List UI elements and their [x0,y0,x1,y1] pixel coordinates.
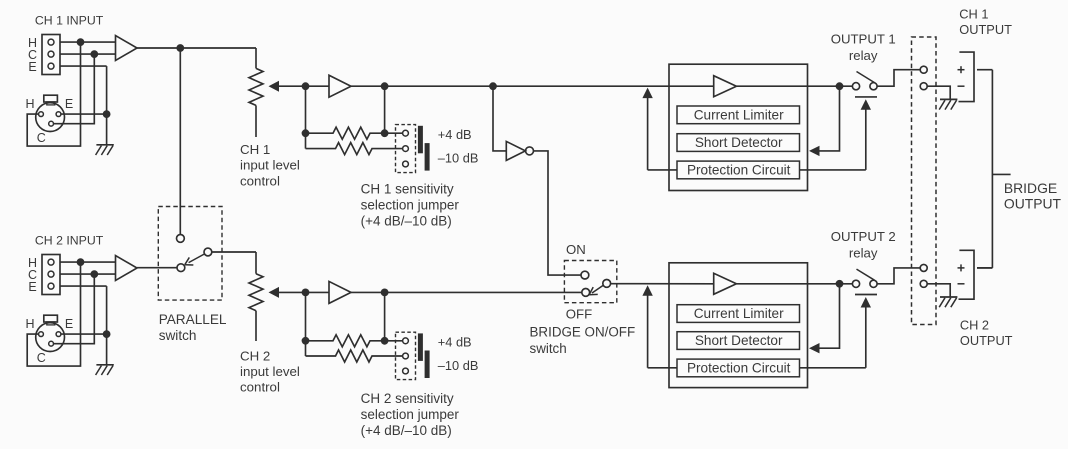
svg-text:CH 1 sensitivity: CH 1 sensitivity [361,181,454,196]
svg-text:CH 2: CH 2 [240,348,270,363]
svg-text:CH 2: CH 2 [960,317,989,332]
svg-text:relay: relay [849,48,878,63]
svg-text:Short Detector: Short Detector [695,333,783,348]
svg-text:selection jumper: selection jumper [361,197,460,212]
svg-text:switch: switch [530,341,567,356]
svg-text:CH 2 INPUT: CH 2 INPUT [35,234,104,248]
svg-text:–10 dB: –10 dB [438,358,479,373]
svg-text:OUTPUT: OUTPUT [959,22,1012,37]
svg-text:OFF: OFF [566,306,592,321]
svg-text:CH 1 INPUT: CH 1 INPUT [35,14,104,28]
svg-text:E: E [65,317,73,331]
svg-text:relay: relay [849,246,878,261]
svg-text:ON: ON [566,242,586,257]
svg-text:+4 dB: +4 dB [438,127,472,142]
svg-text:E: E [65,97,73,111]
svg-text:PARALLEL: PARALLEL [159,312,227,327]
svg-text:CH 1: CH 1 [240,142,270,157]
svg-text:C: C [37,351,46,365]
svg-text:(+4 dB/–10 dB): (+4 dB/–10 dB) [361,423,452,438]
svg-text:CH 2 sensitivity: CH 2 sensitivity [361,391,454,406]
svg-text:OUTPUT: OUTPUT [1004,195,1062,211]
svg-text:selection jumper: selection jumper [361,407,460,422]
svg-text:OUTPUT 1: OUTPUT 1 [831,31,896,46]
svg-text:E: E [28,60,36,74]
svg-text:H: H [25,97,34,111]
svg-text:OUTPUT: OUTPUT [960,333,1013,348]
svg-text:control: control [240,173,280,188]
svg-text:OUTPUT 2: OUTPUT 2 [831,229,896,244]
svg-text:–10 dB: –10 dB [438,151,479,166]
svg-text:BRIDGE: BRIDGE [1004,180,1057,196]
svg-text:C: C [37,131,46,145]
svg-text:E: E [28,280,36,294]
svg-text:input level: input level [240,158,300,173]
svg-text:Protection Circuit: Protection Circuit [687,163,791,178]
svg-text:+4 dB: +4 dB [438,334,472,349]
svg-text:(+4 dB/–10 dB): (+4 dB/–10 dB) [361,213,452,228]
svg-text:Protection Circuit: Protection Circuit [687,361,791,376]
svg-text:Current Limiter: Current Limiter [694,108,784,123]
svg-text:Current Limiter: Current Limiter [694,306,784,321]
svg-text:Short Detector: Short Detector [695,135,783,150]
svg-text:CH 1: CH 1 [959,7,988,22]
svg-text:BRIDGE ON/OFF: BRIDGE ON/OFF [530,325,636,340]
svg-text:switch: switch [159,328,197,343]
svg-text:input level: input level [240,364,300,379]
svg-text:H: H [25,317,34,331]
svg-text:control: control [240,380,280,395]
